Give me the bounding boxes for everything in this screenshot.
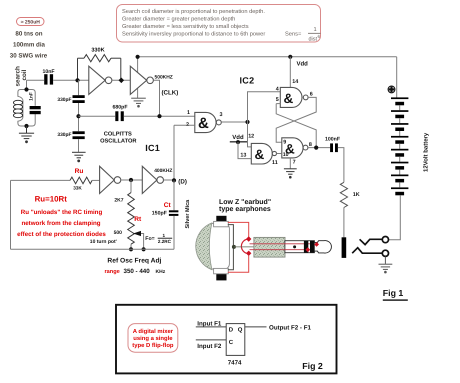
pot wiper arrow [133, 231, 144, 249]
svg-text:1: 1 [187, 110, 190, 116]
svg-text:Ct: Ct [164, 202, 172, 209]
svg-text:150pF: 150pF [152, 211, 167, 217]
jack plug barrel [254, 237, 285, 257]
svg-text:500: 500 [114, 230, 123, 236]
red arc [241, 239, 248, 254]
node red diamond lower [246, 251, 251, 256]
battery B1 12V [391, 97, 408, 195]
wire 500KHZ output [153, 80, 159, 116]
svg-text:30 SWG wire: 30 SWG wire [10, 53, 48, 60]
capacitor 330pF lower [57, 131, 84, 139]
node sleeve dot [293, 245, 296, 248]
wire Vdd to buffer top [137, 57, 139, 98]
wire pin14 [289, 57, 291, 88]
svg-text:network from the clamping: network from the clamping [21, 220, 100, 227]
switch contact top [360, 237, 389, 245]
svg-text:IC2: IC2 [240, 76, 255, 86]
svg-text:coil: coil [21, 69, 28, 80]
wire latch 8 to 5 [276, 104, 316, 148]
earbud body [207, 224, 229, 269]
svg-text:type earphones: type earphones [219, 205, 271, 213]
resistor 1K [340, 182, 347, 207]
wire pin2 to D node [173, 125, 175, 180]
wire CLK row [79, 115, 116, 117]
wire battery to switch [389, 195, 401, 239]
label Low Z earbud [219, 198, 271, 213]
wire IC1 output [221, 121, 247, 123]
wire input F2 [196, 339, 226, 341]
wire left to Ru [11, 179, 71, 181]
svg-text:Silver Mica: Silver Mica [185, 199, 191, 229]
svg-text:&: & [284, 91, 294, 106]
red note text [17, 209, 106, 238]
node rail-buffer [136, 55, 140, 59]
wire earbud dark loop [228, 225, 234, 270]
Fig2 frame [116, 305, 337, 374]
wire red conductor top [250, 243, 317, 245]
svg-text:Greater diameter = greater pen: Greater diameter = greater penetration d… [122, 16, 235, 23]
svg-text:12: 12 [248, 134, 254, 140]
svg-text:7474: 7474 [228, 360, 242, 367]
svg-text:IC1: IC1 [145, 143, 160, 153]
label COLPITTS OSCILLATOR [100, 131, 136, 144]
ground G1 [19, 126, 34, 139]
wire bottom rail [11, 248, 175, 250]
svg-text:10nF: 10nF [42, 69, 54, 75]
inverter U1c [100, 166, 121, 193]
svg-text:10 turn pot': 10 turn pot' [90, 239, 117, 245]
svg-text:A digital mixer: A digital mixer [133, 328, 174, 335]
ground G5 [379, 257, 393, 270]
wire left feedback vertical [10, 180, 12, 249]
gate IC1 (NAND) [195, 112, 222, 132]
svg-text:10: 10 [283, 152, 289, 158]
svg-text:effect of the protection diode: effect of the protection diodes [17, 231, 106, 238]
svg-text:Fo=: Fo= [145, 236, 154, 242]
node pot bottom [129, 247, 133, 251]
plug band tip [310, 241, 314, 253]
svg-text:range: range [105, 269, 120, 275]
svg-text:80 tns on: 80 tns on [15, 31, 42, 38]
wire D to Ct [173, 180, 175, 210]
svg-text:Greater diameter = less sensit: Greater diameter = less sensitivity to s… [122, 23, 249, 30]
svg-text:Sensitivity inversley proporti: Sensitivity inversley proportional to di… [122, 31, 265, 38]
wire inv4 out [164, 179, 175, 181]
earbud black tab bottom [216, 274, 226, 281]
svg-text:1K: 1K [353, 192, 360, 198]
wire cap to 1K [338, 148, 344, 183]
plug band ring [304, 241, 308, 253]
wire earbud red loop [228, 222, 249, 236]
wire input F1 [196, 326, 226, 328]
node D [172, 178, 176, 182]
resistor 330K feedback [78, 55, 121, 81]
svg-text:Fig 2: Fig 2 [302, 361, 323, 371]
svg-text:100nF: 100nF [325, 136, 340, 142]
wire red conductor bottom [250, 249, 308, 251]
svg-text:7: 7 [293, 159, 296, 165]
svg-text:Ref Osc Freq Adj: Ref Osc Freq Adj [107, 258, 161, 265]
gate IC2a (NAND 4,5-6) [280, 87, 308, 107]
svg-text:350 - 440: 350 - 440 [124, 268, 151, 275]
resistor Ru 33K [70, 168, 92, 191]
svg-text:Search coil diameter is propor: Search coil diameter is proportional to … [122, 8, 265, 15]
svg-text:≈ 250uH: ≈ 250uH [21, 20, 41, 26]
resistor Rt 500 pot [90, 211, 142, 246]
svg-text:9: 9 [283, 139, 286, 145]
svg-text:1: 1 [314, 27, 317, 33]
svg-text:12Volt battery: 12Volt battery [423, 132, 430, 172]
wire pin7 [289, 158, 291, 169]
earbud bottom lug [214, 268, 229, 273]
search coil label [14, 66, 28, 86]
label range [105, 268, 166, 275]
svg-text:330pF: 330pF [57, 132, 71, 138]
flip-flop U2 7474 [226, 324, 245, 356]
svg-text:1nF: 1nF [28, 92, 34, 101]
node red diamond tip [314, 242, 319, 247]
wire sleeve conductor [234, 246, 295, 248]
svg-text:Vdd: Vdd [297, 60, 309, 67]
wire cap to ground [78, 139, 80, 152]
svg-text:330pF: 330pF [57, 97, 71, 103]
svg-text:500KHZ: 500KHZ [155, 75, 173, 81]
svg-text:400KHZ: 400KHZ [154, 168, 172, 174]
node cap divider [76, 114, 80, 118]
wire top Vdd rail [138, 56, 397, 58]
plug tip [314, 241, 331, 254]
node wiper bottom [142, 247, 146, 251]
plus symbol [388, 86, 395, 93]
node diamond junction [119, 78, 125, 84]
wire pot bottom [130, 244, 132, 249]
search coil LC tank loop wires [18, 90, 35, 127]
svg-text:&: & [198, 115, 209, 132]
capacitor 680pF [113, 104, 128, 121]
info note box [117, 5, 321, 43]
node main junction [75, 78, 79, 82]
svg-text:14: 14 [292, 79, 298, 85]
svg-text:(CLK): (CLK) [162, 90, 179, 97]
ground G2 [72, 152, 86, 158]
wire to pin12 [248, 122, 252, 147]
capacitor Ct 150pF [152, 202, 179, 216]
svg-text:Q: Q [238, 327, 243, 334]
svg-text:OSCILLATOR: OSCILLATOR [100, 138, 136, 144]
svg-text:5: 5 [276, 97, 279, 103]
svg-text:1: 1 [163, 233, 166, 238]
node IC1 out [245, 120, 249, 124]
earbud black tab top [216, 216, 226, 222]
wire to 2K7 [130, 180, 132, 193]
node rail-IC2 [288, 55, 292, 59]
wire Vdd to pin13 [238, 142, 251, 159]
wire inv3 to inv4 [121, 179, 143, 181]
svg-text:3: 3 [220, 112, 223, 118]
svg-text:2K7: 2K7 [114, 197, 123, 203]
capacitor 100nF [325, 136, 340, 152]
svg-text:13: 13 [240, 153, 246, 159]
red rounded note [128, 324, 178, 353]
wire tank to caps [78, 80, 80, 95]
capacitor C1 10nF [42, 69, 54, 85]
inverter U1a colpitts [89, 66, 112, 94]
svg-text:Low Z "earbud": Low Z "earbud" [219, 198, 271, 206]
svg-text:C: C [229, 339, 234, 346]
wire output Q [245, 326, 267, 328]
label Fo formula [145, 233, 172, 244]
svg-text:using a single: using a single [133, 335, 173, 342]
svg-text:dist: dist [309, 37, 318, 43]
svg-text:Ru=10Rt: Ru=10Rt [35, 194, 68, 203]
node coil top [24, 87, 28, 91]
capacitor 330pF upper [57, 95, 84, 103]
svg-text:Rt: Rt [134, 216, 142, 223]
svg-text:2.2RC: 2.2RC [158, 239, 172, 244]
svg-text:D: D [229, 327, 234, 334]
wire rail to battery [396, 57, 398, 98]
svg-text:6: 6 [310, 91, 313, 97]
svg-text:Sens=: Sens= [285, 32, 302, 38]
node pin8 [314, 146, 318, 150]
wire 1K to socket [343, 208, 345, 238]
inverter U1b buffer [130, 66, 153, 94]
Vdd bar symbol [230, 134, 247, 144]
capacitor 1nF [30, 106, 41, 114]
wire latch 6 to 9 [276, 97, 316, 142]
svg-text:11: 11 [272, 160, 278, 166]
jack socket contact bar [342, 237, 347, 258]
svg-text:4: 4 [276, 86, 279, 92]
svg-text:33K: 33K [73, 186, 82, 191]
switch contact bottom [352, 248, 388, 257]
node CLK junction [157, 114, 161, 118]
inductor L1 (search coil) [13, 100, 22, 117]
svg-text:Fig 1: Fig 1 [383, 288, 404, 298]
svg-text:100mm dia: 100mm dia [13, 42, 46, 49]
ground G4 [284, 169, 297, 174]
resistor 2K7 [128, 193, 135, 211]
svg-text:Output F2 - F1: Output F2 - F1 [269, 324, 311, 331]
gate IC2b (NAND 9,10-8) [282, 138, 308, 158]
ground G3 [131, 98, 146, 103]
node red diamond upper [246, 236, 251, 241]
wire pin11 to pin10 [277, 153, 282, 155]
node Rt top [129, 178, 133, 182]
wire pin8 out [308, 147, 330, 149]
wire pin5 stub [276, 103, 280, 105]
earbud dome mesh [196, 223, 212, 270]
svg-text:Input F1: Input F1 [197, 320, 222, 327]
svg-text:COLPITTS: COLPITTS [104, 131, 132, 137]
jack plug shaft [285, 241, 315, 253]
node earbud center [232, 245, 236, 249]
svg-text:(D): (D) [178, 179, 187, 186]
svg-text:680pF: 680pF [113, 104, 128, 110]
node red diamond ring [305, 247, 310, 252]
wire Ru to inverter [92, 179, 100, 181]
wire between caps [78, 103, 80, 131]
wire main top [27, 79, 45, 81]
wire to pin4 [248, 92, 281, 122]
wire inverter to inverter [112, 79, 130, 81]
svg-text:Input F2: Input F2 [197, 343, 222, 350]
svg-text:Ru: Ru [75, 168, 84, 175]
svg-text:&: & [255, 147, 265, 162]
svg-text:KHz: KHz [156, 269, 166, 275]
coil spec text [10, 31, 48, 60]
inverter U1d [142, 166, 163, 193]
earbud top lug [214, 221, 229, 226]
wire Ct to rail [173, 216, 175, 249]
wire pin2 stub [174, 124, 195, 126]
node coil bottom [24, 124, 28, 128]
svg-text:Ru "unloads" the RC timing: Ru "unloads" the RC timing [21, 209, 103, 216]
gate IC2c (NAND 12,13-11) [251, 143, 276, 164]
inductance oval label [17, 18, 45, 26]
label Fig 1 [383, 288, 408, 301]
svg-text:type D flip-flop: type D flip-flop [132, 342, 174, 349]
svg-text:330K: 330K [91, 48, 104, 54]
